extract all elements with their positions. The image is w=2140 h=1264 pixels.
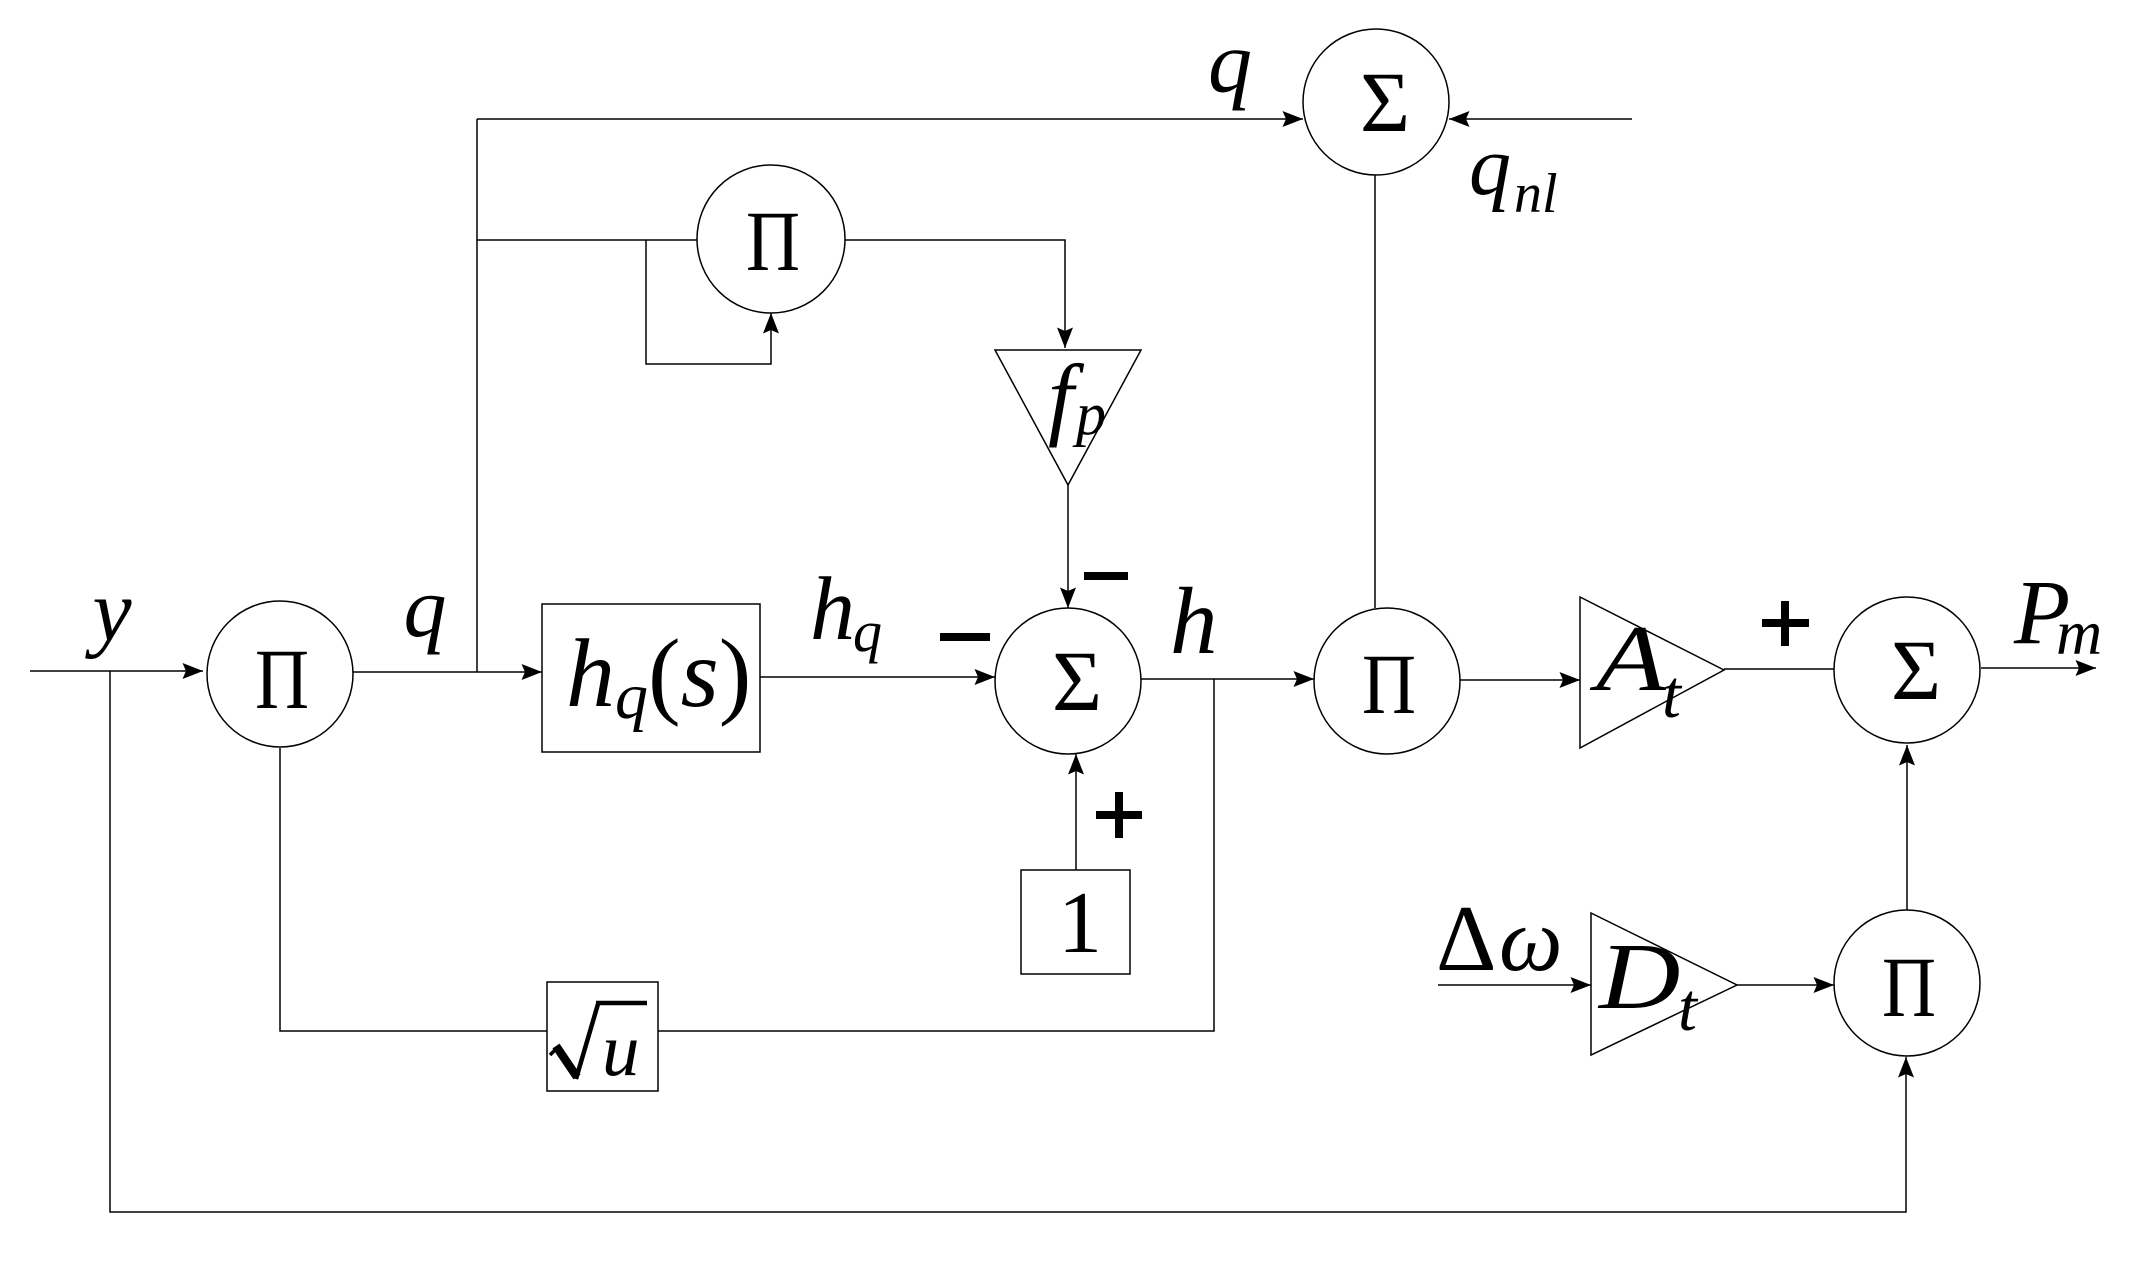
wire h to PI3 bbox=[1141, 678, 1314, 680]
svg-text:Σ: Σ bbox=[1052, 633, 1102, 729]
block hq(s) bbox=[542, 604, 760, 752]
wire q squared loop bbox=[646, 240, 771, 364]
svg-text:A: A bbox=[1589, 607, 1667, 711]
wire hq to SIGMA2 bbox=[760, 676, 995, 678]
wire q branch to PI2 bbox=[477, 239, 697, 241]
wire q to top summer bbox=[477, 118, 1303, 120]
svg-text:u: u bbox=[602, 1009, 640, 1092]
svg-text:h: h bbox=[1170, 568, 1218, 674]
minus sign at SIGMA2 left bbox=[940, 633, 990, 641]
svg-text:D: D bbox=[1597, 925, 1681, 1029]
svg-text:Π: Π bbox=[255, 632, 309, 727]
multiplier PI4 bbox=[1834, 910, 1980, 1056]
wire Pm output bbox=[1981, 667, 2096, 669]
svg-text:q: q bbox=[1469, 120, 1511, 213]
node Pm label bbox=[2013, 561, 2102, 668]
svg-text:q: q bbox=[853, 599, 882, 664]
block sqrt u bbox=[547, 982, 658, 1092]
svg-text:p: p bbox=[1072, 381, 1106, 447]
wire sqrt u to PI1 bbox=[280, 748, 547, 1031]
summer SIGMA1 bbox=[1303, 29, 1449, 175]
multiplier PI1 bbox=[207, 601, 353, 747]
wire h to sqrt u bbox=[658, 679, 1214, 1031]
svg-text:Π: Π bbox=[1882, 940, 1936, 1035]
svg-text:1: 1 bbox=[1058, 875, 1102, 972]
svg-text:hq(s): hq(s) bbox=[566, 620, 751, 733]
plus sign at SIGMA2 bottom bbox=[1096, 792, 1142, 838]
node hq label bbox=[810, 560, 882, 664]
node qnl label bbox=[1469, 120, 1558, 225]
wire Dt to PI4 bbox=[1737, 984, 1834, 986]
minus sign at SIGMA2 top bbox=[1084, 572, 1128, 580]
wire y feedback bbox=[110, 671, 1906, 1212]
multiplier PI3 bbox=[1314, 608, 1460, 754]
svg-text:t: t bbox=[1678, 969, 1699, 1045]
wire fp to SIGMA2 bbox=[1067, 485, 1069, 608]
gain At bbox=[1580, 597, 1724, 748]
svg-text:m: m bbox=[2056, 597, 2102, 668]
svg-text:h: h bbox=[810, 560, 855, 659]
svg-text:q: q bbox=[1208, 15, 1252, 112]
svg-text:Σ: Σ bbox=[1891, 622, 1941, 718]
wire SIGMA1 to PI3 bbox=[1374, 175, 1376, 608]
svg-text:q: q bbox=[404, 559, 447, 655]
summer SIGMA2 bbox=[995, 608, 1141, 754]
node delta omega label bbox=[1436, 887, 1563, 991]
svg-text:t: t bbox=[1662, 656, 1683, 732]
wire qnl input bbox=[1449, 118, 1632, 120]
gain fp bbox=[995, 346, 1141, 485]
wire PI2 to fp bbox=[845, 240, 1065, 348]
svg-text:nl: nl bbox=[1514, 163, 1558, 225]
wire 1 to SIGMA2 bbox=[1075, 754, 1077, 870]
constant block 1 bbox=[1021, 870, 1130, 974]
wire q from PI1 to hq(s) bbox=[353, 671, 542, 673]
wire q feedback riser bbox=[476, 119, 478, 672]
svg-text:Σ: Σ bbox=[1360, 54, 1410, 150]
wire delta omega to Dt bbox=[1438, 984, 1591, 986]
wire PI4 to SIGMA3 bbox=[1906, 745, 1908, 910]
multiplier PI2 bbox=[697, 165, 845, 313]
summer SIGMA3 bbox=[1834, 597, 1980, 743]
svg-text:y: y bbox=[84, 563, 132, 660]
gain Dt bbox=[1591, 913, 1737, 1055]
svg-text:Δ: Δ bbox=[1436, 887, 1496, 991]
plus sign at SIGMA3 bbox=[1762, 601, 1809, 646]
wire At to SIGMA3 bbox=[1724, 668, 1834, 670]
wire y input bbox=[30, 670, 203, 672]
svg-text:Π: Π bbox=[1362, 637, 1416, 732]
svg-text:Π: Π bbox=[746, 194, 800, 289]
svg-text:ω: ω bbox=[1499, 891, 1563, 990]
wire PI3 to At bbox=[1460, 679, 1580, 681]
